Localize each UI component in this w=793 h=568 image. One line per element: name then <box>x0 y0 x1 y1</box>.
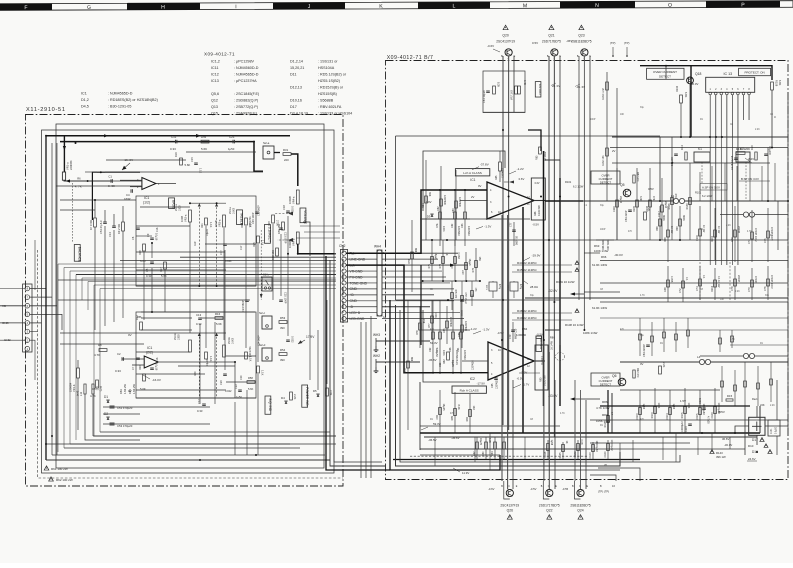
svg-text:IC11: IC11 <box>211 66 219 70</box>
relay K1 <box>694 152 710 162</box>
svg-text:C62: C62 <box>429 347 432 352</box>
svg-text:120P630: 120P630 <box>449 317 452 328</box>
resistor R31 220 <box>283 153 291 156</box>
svg-text:305V: 305V <box>718 410 725 414</box>
potentiometer VR2-b bass <box>189 340 192 352</box>
svg-text:R59 15K: R59 15K <box>277 224 281 234</box>
svg-text:4.7K: 4.7K <box>94 353 100 357</box>
svg-text:R54: R54 <box>280 348 286 352</box>
supply column rails <box>659 137 661 201</box>
svg-text:15K: 15K <box>474 288 476 293</box>
svg-text:10μ16: 10μ16 <box>155 363 159 371</box>
svg-text:390: 390 <box>280 326 285 330</box>
svg-text:100K: 100K <box>442 226 445 232</box>
svg-text:C84 2200P: C84 2200P <box>642 344 646 357</box>
svg-text:D10: D10 <box>748 444 754 448</box>
resistor R12 5.6K <box>140 322 143 330</box>
svg-text:R44 22 113PΩ: R44 22 113PΩ <box>517 261 537 265</box>
svg-text:VR2-a: VR2-a <box>184 214 188 222</box>
svg-text:10000μ42: 10000μ42 <box>610 440 613 452</box>
svg-text:R92 470: R92 470 <box>636 368 639 378</box>
svg-text:2.2V: 2.2V <box>748 157 754 161</box>
svg-text:C11: C11 <box>171 135 177 139</box>
svg-text:: NJM4565D-D: : NJM4565D-D <box>234 72 259 76</box>
resistor R62 warning <box>49 477 54 481</box>
capacitor C10 10u16 <box>150 367 154 369</box>
potentiometer VR4-b lower <box>296 232 299 244</box>
wire opamp out to block <box>534 200 545 202</box>
capacitor C63 220P <box>628 209 632 211</box>
resistor Rn5 5.6K vertical <box>180 158 183 165</box>
component strings mid rails <box>420 299 560 301</box>
svg-text:0.1μ100: 0.1μ100 <box>671 157 674 166</box>
resistor R23 1.1K <box>245 218 248 225</box>
wire signal rails to CN2 <box>298 253 336 255</box>
svg-text:OVER CURRENT: OVER CURRENT <box>653 70 677 74</box>
strings right side 330-406 <box>744 362 746 406</box>
svg-text:R53: R53 <box>280 316 286 320</box>
svg-text:C17: C17 <box>240 245 243 250</box>
svg-text:2SD1717BD*5: 2SD1717BD*5 <box>539 504 560 508</box>
svg-text:33μ: 33μ <box>470 295 475 297</box>
capacitor C19 0.022 <box>286 339 290 341</box>
svg-text:2.2K: 2.2K <box>755 129 760 131</box>
svg-text:3.3K: 3.3K <box>639 196 642 201</box>
capacitor C178 33u16 <box>734 157 738 159</box>
resistor R56 <box>290 392 293 400</box>
svg-text:120P630: 120P630 <box>472 360 475 370</box>
strings below rail 281 <box>451 281 453 310</box>
svg-text:D1: D1 <box>104 395 108 399</box>
capacitor C20 0.023 <box>223 373 227 375</box>
svg-text:0.33: 0.33 <box>115 369 121 373</box>
potentiometer VR7 1KB <box>515 86 518 94</box>
switch S2-a <box>263 146 274 159</box>
junction dots rail281 <box>422 280 424 282</box>
label POWER IND box <box>302 385 308 407</box>
svg-text:1μ63: 1μ63 <box>642 404 645 410</box>
svg-text:Rns: Rns <box>201 135 207 139</box>
svg-text:R78: R78 <box>416 330 419 335</box>
svg-text:HSS104A: HSS104A <box>318 66 335 70</box>
svg-text:1.1K: 1.1K <box>209 222 213 228</box>
svg-text:-36.6V: -36.6V <box>428 358 437 362</box>
capacitor C23 560P <box>279 227 283 229</box>
resistor R79 8.2K <box>493 86 496 94</box>
svg-text:D12,13: D12,13 <box>290 85 302 89</box>
svg-text:M: M <box>523 3 527 9</box>
svg-text:C85: C85 <box>491 383 494 388</box>
svg-text:C83: C83 <box>452 208 455 213</box>
wire thick loop C <box>400 310 680 462</box>
top ruler scale bar <box>0 1 793 12</box>
svg-text:: 2SB772(Q.P): : 2SB772(Q.P) <box>234 105 258 109</box>
svg-text:L12: L12 <box>96 386 100 391</box>
wire rails misc <box>483 111 525 113</box>
resistor R55 <box>326 388 329 396</box>
svg-text:C20: C20 <box>219 380 223 385</box>
svg-text:4. 7K: 4. 7K <box>75 185 82 189</box>
svg-text:0.33: 0.33 <box>197 409 203 413</box>
svg-text:1.1K: 1.1K <box>261 370 265 376</box>
svg-text:R79: R79 <box>404 368 407 373</box>
svg-text:Q26: Q26 <box>507 509 514 513</box>
svg-text:R77: R77 <box>428 323 431 328</box>
svg-text:R132 15K: R132 15K <box>602 155 605 166</box>
svg-text:R19: R19 <box>194 241 197 246</box>
component strings Lch band <box>425 160 427 240</box>
svg-text:C86: C86 <box>458 332 461 337</box>
svg-text:: 2SD882(Q.P): : 2SD882(Q.P) <box>234 99 258 103</box>
svg-text:C16: C16 <box>156 227 159 232</box>
label Rch A CLASS <box>452 386 486 393</box>
svg-text:8.2K: 8.2K <box>457 405 460 410</box>
transistor Q24 2SB1182BD*5 <box>577 489 584 496</box>
svg-text:33μ: 33μ <box>765 295 770 297</box>
resistor R83 16 1/4W right of opamp <box>539 147 542 154</box>
svg-text:1μ50: 1μ50 <box>228 147 235 151</box>
svg-text:R86: R86 <box>550 336 555 340</box>
wire thick staircase Lch top <box>528 130 541 151</box>
wire bias verticals <box>606 72 608 201</box>
strings above Rch input rail <box>432 300 434 373</box>
wire thick verticals near CN2 <box>360 322 362 478</box>
svg-text:100KB: 100KB <box>288 196 292 204</box>
svg-text:11.9V: 11.9V <box>462 471 469 475</box>
svg-text:1.1K: 1.1K <box>209 356 213 362</box>
svg-text:Rch A CLASS: Rch A CLASS <box>460 389 479 393</box>
svg-text:-1.3V: -1.3V <box>484 225 491 229</box>
svg-text:VR3-a: VR3-a <box>218 219 222 227</box>
svg-text:360K: 360K <box>682 215 685 221</box>
svg-text:R98: R98 <box>656 226 659 231</box>
svg-text:R83: R83 <box>536 155 539 160</box>
svg-text:R108 16 1/4W: R108 16 1/4W <box>565 323 584 327</box>
resistor R19 5.6K <box>143 244 146 251</box>
wires CN2 to WH4 <box>346 252 377 254</box>
svg-text:10 1W: 10 1W <box>670 226 673 234</box>
svg-text:0.1: 0.1 <box>702 275 705 279</box>
svg-text:: 1SS131 or: : 1SS131 or <box>318 59 338 63</box>
left board inner dashed border <box>38 250 343 478</box>
svg-text:R99: R99 <box>676 226 679 231</box>
svg-text:C: C <box>508 485 510 488</box>
svg-text:39K: 39K <box>428 192 431 197</box>
svg-text:866: 866 <box>410 357 413 362</box>
svg-text:C74: C74 <box>696 286 699 291</box>
wire volume out thick <box>298 244 334 254</box>
svg-text:2V: 2V <box>612 149 616 153</box>
resistor R20 5.6K <box>143 374 146 381</box>
svg-text:-0.5V: -0.5V <box>517 377 524 381</box>
diode D15 <box>726 399 733 401</box>
svg-text:100P: 100P <box>590 119 596 121</box>
capacitor C6 100P <box>136 227 140 229</box>
wire bottom hanging strings <box>434 437 436 466</box>
svg-text:15K: 15K <box>422 319 425 324</box>
wire Lch input bus <box>46 135 290 137</box>
svg-text:C13: C13 <box>196 313 202 317</box>
wire loop to Rch <box>419 382 421 450</box>
wire Rch frame <box>136 312 256 398</box>
svg-text:C62: C62 <box>439 362 442 367</box>
svg-text:1.5V: 1.5V <box>680 399 686 403</box>
svg-text:C25 100P: C25 100P <box>284 292 288 304</box>
svg-text:120P630: 120P630 <box>502 168 505 178</box>
svg-text:S2-d: S2-d <box>259 343 266 347</box>
label BASS box <box>169 198 175 209</box>
capacitor C15 16u25 <box>194 162 198 164</box>
svg-text:VR1-b: VR1-b <box>72 384 76 392</box>
svg-text:D14: D14 <box>680 145 684 150</box>
svg-text:K1: K1 <box>698 147 702 151</box>
svg-text:CN2: CN2 <box>339 244 346 248</box>
resistor R85 15P630 above opamp <box>499 162 502 171</box>
svg-text:10000μ42: 10000μ42 <box>681 421 684 432</box>
capacitor C24 560P <box>245 299 249 301</box>
svg-text:F: F <box>24 5 27 11</box>
component strings Rch band <box>431 300 433 340</box>
wire bottom rails right block <box>420 432 760 434</box>
capacitor C51 470u20 <box>103 406 140 408</box>
svg-text:C116: C116 <box>613 206 616 212</box>
svg-text:390: 390 <box>280 358 285 362</box>
svg-text:C119: C119 <box>685 426 688 432</box>
svg-text:: NJM4565D-D: : NJM4565D-D <box>108 91 133 95</box>
svg-text:R?b: R?b <box>436 347 439 352</box>
svg-text:R9 270K: R9 270K <box>117 224 121 234</box>
svg-text:4700P: 4700P <box>754 276 757 284</box>
resistor R92 470 <box>633 370 635 378</box>
svg-text:R6: R6 <box>77 177 81 181</box>
svg-text:120P630: 120P630 <box>463 350 466 360</box>
svg-text:2200P: 2200P <box>737 226 740 234</box>
svg-text:2.2K: 2.2K <box>735 291 740 293</box>
svg-text:0.9μ50: 0.9μ50 <box>776 426 778 434</box>
wire CN1 into board <box>30 288 46 290</box>
svg-text:R76: R76 <box>472 267 475 272</box>
resistor R21 1.1K <box>205 218 208 225</box>
svg-text:100B: 100B <box>179 205 182 211</box>
wire heavy vertical x523 <box>522 207 524 433</box>
svg-text:VR1-a: VR1-a <box>66 162 70 170</box>
inductor L4 <box>699 359 704 364</box>
wire Q22 leads <box>543 340 545 481</box>
transistor Q21 2SD717BD*5 <box>549 25 554 29</box>
svg-text:K2: K2 <box>740 147 744 151</box>
wire CN1 leads <box>0 305 25 307</box>
svg-text:0.022: 0.022 <box>225 389 232 393</box>
svg-text:-30.0V: -30.0V <box>614 253 623 257</box>
svg-text:100B: 100B <box>180 216 184 222</box>
svg-text:C22: C22 <box>234 384 238 389</box>
svg-text:2SC4137F19: 2SC4137F19 <box>496 40 515 44</box>
svg-text:1μ50: 1μ50 <box>236 395 242 399</box>
svg-text:Q6: Q6 <box>612 374 617 378</box>
svg-text:28.0Ω: 28.0Ω <box>530 285 539 289</box>
svg-text:C76: C76 <box>764 286 767 291</box>
svg-text:C79: C79 <box>731 237 734 242</box>
capacitor C131 0.9u50 <box>768 420 780 436</box>
resistor R26 1.1K <box>257 366 260 373</box>
svg-text:: RD5.1JS(B2) or: : RD5.1JS(B2) or <box>318 72 347 76</box>
wire left block vertical drops <box>94 280 96 330</box>
capacitor C22 1u50 <box>238 389 242 391</box>
capacitor C8 0.33 / R17 5.6K <box>150 261 154 263</box>
svg-text:VR4-a: VR4-a <box>292 196 296 204</box>
svg-text:: RD15JS(B) or: : RD15JS(B) or <box>318 85 344 89</box>
svg-text:220KB4: 220KB4 <box>69 160 73 170</box>
wire Rch inverting lead <box>462 360 488 362</box>
svg-text:: μPC1237HA: : μPC1237HA <box>234 79 257 83</box>
svg-text:(TP): (TP) <box>624 41 630 45</box>
svg-text:Q5: Q5 <box>620 183 625 187</box>
svg-text:Q20: Q20 <box>502 34 509 38</box>
wire bottom rails <box>46 459 330 461</box>
diode bridge D17 <box>749 417 765 435</box>
svg-text:C15: C15 <box>190 157 194 162</box>
capacitor C17 0.023 <box>223 243 227 245</box>
svg-text:S2-c: S2-c <box>259 311 266 315</box>
svg-text:C48: C48 <box>664 287 667 292</box>
svg-text:R7b 470: R7b 470 <box>454 290 456 299</box>
label IDL ADJ <box>535 82 541 97</box>
svg-text:-1.2V: -1.2V <box>517 167 524 171</box>
wires above CN2 <box>300 225 340 227</box>
transistor Q26 2SC4137F19 <box>506 489 513 496</box>
svg-text:Q13: Q13 <box>211 105 218 109</box>
wire rails Lch rows <box>421 280 481 282</box>
svg-text:R31: R31 <box>283 148 289 152</box>
wire R158 down <box>771 90 773 148</box>
dashed drops from relays <box>701 162 703 183</box>
svg-text:R97 360K: R97 360K <box>607 239 610 250</box>
svg-text:HZS5.1S(B2): HZS5.1S(B2) <box>318 79 340 83</box>
svg-text:4.7K: 4.7K <box>90 394 96 398</box>
svg-text:D4,5: D4,5 <box>81 104 89 108</box>
svg-text:16μμ6: 16μμ6 <box>434 253 437 261</box>
svg-text:R82: R82 <box>466 416 469 421</box>
wire D17 leads <box>765 425 788 427</box>
svg-text:C1: C1 <box>108 175 112 179</box>
svg-text:R105: R105 <box>681 412 684 419</box>
label S.Q.IND box <box>265 396 271 414</box>
wire Rch out <box>178 361 235 363</box>
svg-text:1μ58: 1μ58 <box>550 440 553 446</box>
svg-text:D1,2,14: D1,2,14 <box>290 59 303 63</box>
svg-text:Q12: Q12 <box>211 99 218 103</box>
svg-text:R90: R90 <box>540 377 543 382</box>
svg-text:R16: R16 <box>215 312 221 316</box>
svg-text:-29.9V: -29.9V <box>532 254 541 258</box>
svg-text:2200P: 2200P <box>737 275 740 283</box>
capacitor C <box>674 153 678 155</box>
svg-text:: μPC1298V: : μPC1298V <box>234 59 254 63</box>
strings under Lch input rail <box>439 190 441 246</box>
pot wiper dashed <box>71 183 73 243</box>
wire L4 rails <box>620 361 699 363</box>
box OVER CURRENT DETECT Rch <box>591 373 620 386</box>
svg-text:IC1: IC1 <box>81 91 87 95</box>
wire Rch opamp out <box>534 360 545 362</box>
svg-text:5.6K: 5.6K <box>185 163 191 167</box>
svg-text:470μ: 470μ <box>498 284 500 290</box>
svg-text:R7 470K: R7 470K <box>89 220 93 230</box>
svg-text:VR7 1KB: VR7 1KB <box>511 90 514 100</box>
svg-text:R23: R23 <box>241 223 244 228</box>
wire Lch input bus thick <box>346 190 487 253</box>
svg-text:K: K <box>379 4 383 10</box>
junction dots right block <box>502 129 504 131</box>
svg-text:10μ16: 10μ16 <box>206 229 209 236</box>
svg-text:33μ: 33μ <box>640 335 645 337</box>
switch S2-d <box>262 348 272 361</box>
svg-text:0.022: 0.022 <box>291 336 295 343</box>
svg-text:C121: C121 <box>699 397 702 404</box>
svg-text:R?b: R?b <box>436 223 439 228</box>
svg-text:R134: R134 <box>676 85 679 92</box>
svg-text:-1.2V: -1.2V <box>470 327 477 331</box>
svg-text:: S5688B: : S5688B <box>318 98 334 102</box>
svg-text:24.6V: 24.6V <box>748 457 756 461</box>
svg-text:C82: C82 <box>437 206 440 211</box>
svg-text:16μμ6: 16μμ6 <box>468 259 471 267</box>
svg-text:10K: 10K <box>620 114 625 116</box>
svg-text:A.SP ON 5.0V: A.SP ON 5.0V <box>702 185 720 189</box>
transistor Q5 <box>623 189 631 197</box>
svg-text:0.6V: 0.6V <box>519 177 525 181</box>
svg-text:C24 560P: C24 560P <box>241 300 245 312</box>
capacitor C77 560P <box>513 222 515 246</box>
svg-text:120P630: 120P630 <box>496 379 499 389</box>
wire rail y66 top <box>640 66 772 80</box>
resistor R25 1.1K <box>257 236 260 243</box>
svg-text:-0.6V: -0.6V <box>487 44 494 48</box>
svg-text:10K: 10K <box>720 299 725 301</box>
svg-text:R84: R84 <box>602 413 608 417</box>
svg-text:6.2 1/2W: 6.2 1/2W <box>573 185 584 189</box>
svg-text:PROTECT: ON: PROTECT: ON <box>745 71 765 75</box>
resistor Rx 5.6K <box>201 140 209 143</box>
svg-text:R19: R19 <box>139 250 142 255</box>
svg-text:D11: D11 <box>290 72 297 76</box>
svg-text:: NJM4560D-D: : NJM4560D-D <box>234 66 259 70</box>
transistor Q22 2SD1717BD*5 <box>546 489 553 496</box>
svg-text:C12: C12 <box>197 399 201 404</box>
svg-text:C79: C79 <box>748 287 751 292</box>
label TREBLE box <box>237 210 243 225</box>
relay K2 <box>736 152 750 162</box>
svg-text:15K: 15K <box>478 257 481 262</box>
svg-text:100K: 100K <box>442 350 445 356</box>
svg-text:8.2K: 8.2K <box>497 82 500 87</box>
svg-text:0.055: 0.055 <box>670 276 673 283</box>
svg-text:Q23: Q23 <box>578 34 585 38</box>
svg-text:D17: D17 <box>290 105 297 109</box>
svg-text:S2-a: S2-a <box>263 141 270 145</box>
capacitor C141 <box>764 153 768 155</box>
label A.SP ON <box>700 184 727 190</box>
svg-text:16μ25: 16μ25 <box>479 438 482 446</box>
wire vertical feed left <box>45 136 47 460</box>
capacitor C12 0.33 <box>202 403 206 405</box>
svg-text:59.3V: 59.3V <box>433 422 441 426</box>
svg-text:0.5V: 0.5V <box>648 187 654 191</box>
svg-text:1.1K: 1.1K <box>199 168 202 173</box>
svg-text:R63: R63 <box>594 244 600 248</box>
capacitor C124 470u <box>489 282 497 291</box>
wire L1 rail <box>560 200 673 202</box>
